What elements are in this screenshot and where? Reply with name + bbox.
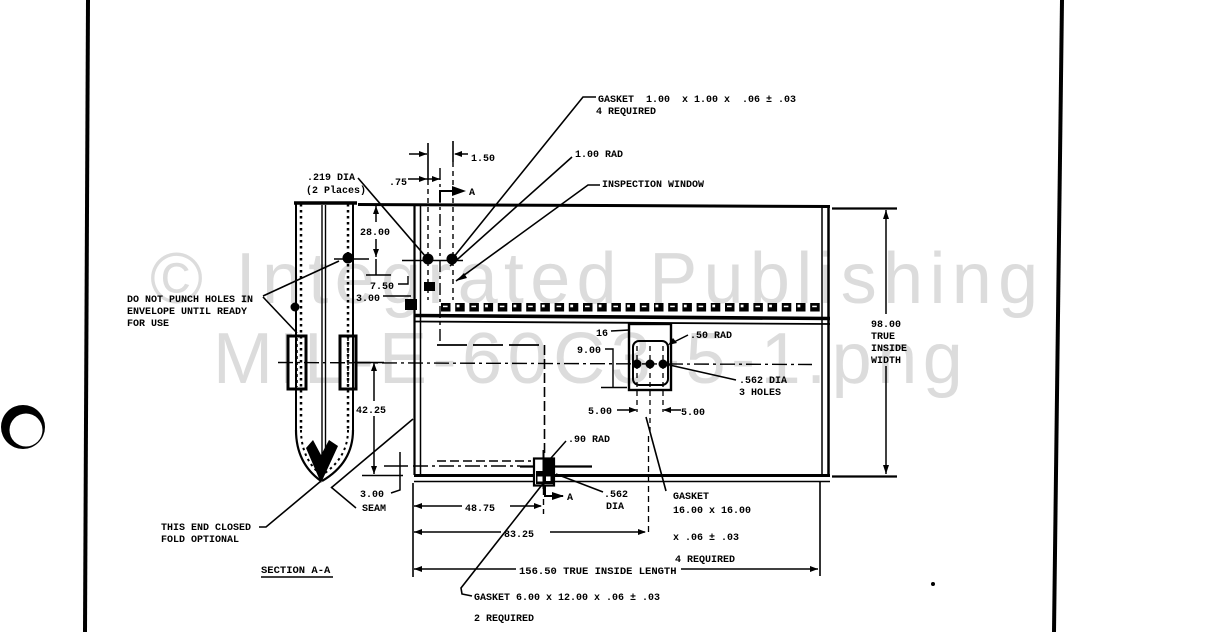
svg-text:(2 Places): (2 Places) [306,185,366,197]
leader .219 dia [358,178,426,257]
svg-text:42.25: 42.25 [356,406,386,417]
page border left [85,0,88,632]
svg-text:4 REQUIRED: 4 REQUIRED [675,555,735,566]
svg-text:FOR USE: FOR USE [127,319,169,330]
section arrow A (top) [440,191,462,202]
dim 48.75 [414,505,462,507]
svg-text:.562: .562 [604,490,628,501]
svg-text:1.00 RAD: 1.00 RAD [575,150,623,161]
bottom dims extension lines [412,483,414,577]
svg-text:.219 DIA: .219 DIA [307,173,355,184]
svg-text:x .06 ± .03: x .06 ± .03 [673,533,739,544]
section A-A: right gasket block [340,336,356,389]
main view top edge [358,205,830,207]
svg-text:A: A [567,493,573,504]
stray dot [931,582,935,586]
junction blocks at left of zipper [405,299,417,310]
svg-text:16.00 x 16.00: 16.00 x 16.00 [673,506,751,517]
svg-text:.90 RAD: .90 RAD [568,435,610,446]
label gasket 16.00 [646,417,666,491]
closure zipper row [441,303,820,312]
hole centerlines [636,346,638,412]
svg-text:MIL-E-60C3-5-1.png: MIL-E-60C3-5-1.png [213,319,968,399]
dim 7.50 [375,259,377,275]
svg-text:.50 RAD: .50 RAD [690,331,732,342]
svg-text:156.50 TRUE INSIDE LENGTH: 156.50 TRUE INSIDE LENGTH [519,566,677,578]
section arrow A (bottom) [545,486,563,496]
horizontal centerline main [278,363,812,365]
section A-A: center plies [321,205,323,468]
svg-text:4 REQUIRED: 4 REQUIRED [596,107,656,118]
svg-text:.562 DIA: .562 DIA [739,376,787,387]
svg-text:16: 16 [596,329,608,340]
main view bottom edge (double) [414,474,830,477]
long leader inspection window [456,185,600,281]
svg-text:98.00: 98.00 [871,320,901,331]
dim 3.00 seam [384,465,408,467]
svg-text:DO NOT PUNCH HOLES IN: DO NOT PUNCH HOLES IN [127,295,253,306]
dim 42.25 [373,363,375,401]
dim 156.50 [414,568,516,570]
long leader 1.00 rad [450,157,572,266]
corner hole centerline vertical [543,450,545,489]
leader this end closed [259,481,321,527]
section A-A: left wall stipple [300,204,303,430]
horizontal centerline lower (through .562 hole) [413,465,520,467]
svg-text:83.25: 83.25 [504,530,534,541]
inspection window right edge [544,345,546,457]
svg-text:5.00: 5.00 [681,408,705,419]
dim 98.00 [832,207,897,209]
svg-text:INSIDE: INSIDE [871,344,907,355]
svg-text:.75: .75 [389,178,407,189]
section A-A: left gasket block [288,336,306,389]
main view right edge (double) [821,207,823,477]
.219 hole 2 [452,141,454,162]
svg-text:5.00: 5.00 [588,407,612,418]
punch hole [1,405,45,449]
svg-text:DIA: DIA [606,502,624,513]
page border right [1054,0,1062,632]
.219 hole 1 [427,143,429,180]
svg-text:3 HOLES: 3 HOLES [739,388,781,399]
cutting plane line [439,168,441,345]
label .562 dia (bottom) [556,474,603,492]
dim 5.00 right [664,409,681,411]
bottom ticks at seam [362,475,403,477]
leader: do not punch (lower branch) [263,297,297,333]
label gasket 6.00 [461,481,545,596]
inspection window bottom edge [437,460,531,462]
section A-A: top cap [294,201,357,205]
section A-A: upper punch hole [343,253,354,264]
svg-text:FOLD OPTIONAL: FOLD OPTIONAL [161,535,239,546]
svg-text:7.50: 7.50 [370,282,394,293]
svg-text:1.50: 1.50 [471,154,495,165]
svg-text:28.00: 28.00 [360,228,390,239]
section A-A: right wall outer [352,204,354,430]
svg-text:2 REQUIRED: 2 REQUIRED [474,614,534,625]
leader: do not punch (upper branch) [263,261,339,296]
svg-text:GASKET: GASKET [673,492,709,503]
svg-text:3.00: 3.00 [360,490,384,501]
section A-A: left wall outer [295,204,297,430]
section A-A: bottom V fold [296,430,321,481]
svg-text:SEAM: SEAM [362,504,386,515]
3-hole gasket detail: outer box [629,324,671,390]
main view left edge (double) [413,205,415,475]
3-hole gasket detail: inner rounded box [633,341,668,385]
svg-text:WIDTH: WIDTH [871,356,901,367]
svg-text:A: A [469,188,475,199]
dim 83.25 [414,531,501,533]
dim 1.50 [409,153,427,155]
label .562 dia 3 holes [665,364,736,380]
dim 28.00 [375,206,377,222]
svg-text:9.00: 9.00 [577,346,601,357]
projection diagonal [331,419,413,488]
closure heavy double line [414,316,830,319]
long leader gasket 1.00 [453,97,596,258]
svg-text:THIS END CLOSED: THIS END CLOSED [161,523,251,534]
svg-text:48.75: 48.75 [465,504,495,515]
svg-text:INSPECTION WINDOW: INSPECTION WINDOW [602,180,704,191]
3 holes [633,360,642,369]
inspection window top edge [437,344,545,346]
svg-text:GASKET 1.00 x 1.00 x .06 ±: GASKET 1.00 x 1.00 x .06 ± .03 [598,95,796,106]
svg-text:TRUE: TRUE [871,332,895,343]
section A-A: right wall stipple [347,204,350,430]
section A-A: seam blob [306,440,338,483]
svg-text:ENVELOPE UNTIL READY: ENVELOPE UNTIL READY [127,307,247,318]
svg-text:GASKET 6.00 x 12.00 x .06 ± .0: GASKET 6.00 x 12.00 x .06 ± .03 [474,593,660,604]
svg-text:SECTION A-A: SECTION A-A [261,565,331,577]
section A-A: lower punch hole [291,303,300,312]
svg-text:3.00: 3.00 [356,294,380,305]
.562 corner hole detail [534,459,554,486]
